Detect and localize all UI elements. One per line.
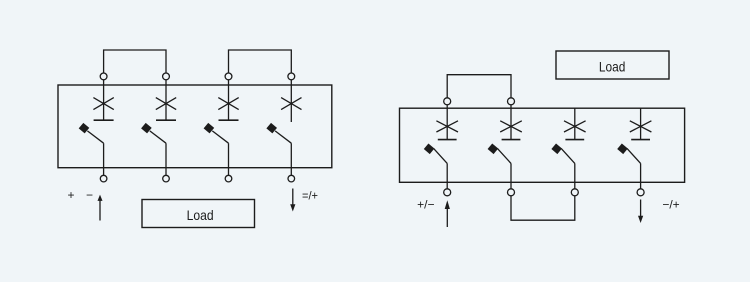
valve cross (asterisk) of switch S4 (left diagram) <box>281 98 301 110</box>
bottom terminal of switch S3 (right diagram) <box>571 189 578 196</box>
valve cross (asterisk) of switch S4 (right diagram) <box>630 121 652 132</box>
svg-text:Load: Load <box>599 58 626 74</box>
fixed contact bar of switch S3 (right diagram) <box>565 139 584 141</box>
module box (right diagram) <box>400 108 685 182</box>
current arrow up at terminal 1 (left diagram) <box>98 195 103 221</box>
svg-text:Load: Load <box>187 207 214 223</box>
Load box (left diagram) <box>142 200 255 228</box>
blade tip block of switch S1 (right diagram) <box>424 144 435 155</box>
fixed contact bar of switch S1 (left diagram) <box>94 119 114 121</box>
top terminal T1 (left diagram) <box>100 73 107 80</box>
blade tip block of switch S2 (left diagram) <box>141 123 152 134</box>
blade tip block of switch S3 (right diagram) <box>551 144 562 155</box>
wire: bottom lead of switch S4 (left diagram) <box>290 143 292 175</box>
valve cross (asterisk) of switch S3 (right diagram) <box>564 121 586 132</box>
bottom terminal of switch S2 (left diagram) <box>163 175 170 182</box>
wire: bottom lead of switch S2 (left diagram) <box>165 143 167 175</box>
bottom terminal of switch S3 (left diagram) <box>225 175 232 182</box>
top terminal T4 (left diagram) <box>288 73 295 80</box>
current arrow down at terminal 4 (right diagram) <box>638 200 643 224</box>
wire: jumper loop joining terminals 1-2 (left diagram) <box>104 50 166 73</box>
wire: jumper loop joining terminals 1-2 (right diagram) <box>447 75 511 98</box>
switch blade of switch S1 (left diagram) <box>87 131 103 143</box>
blade tip block of switch S4 (left diagram) <box>266 123 277 134</box>
blade tip block of switch S4 (right diagram) <box>617 144 628 155</box>
valve cross (asterisk) of switch S1 (right diagram) <box>436 121 458 132</box>
blade tip block of switch S2 (right diagram) <box>488 144 499 155</box>
current arrow up at terminal 1 (right diagram) <box>445 200 450 227</box>
wire: stem from box top edge (right diagram col 4) <box>640 108 642 139</box>
wire: stem from terminal T1 into box (right diagram) <box>446 105 448 140</box>
fixed contact bar of switch S3 (left diagram) <box>219 119 239 121</box>
switch blade of switch S3 (left diagram) <box>212 131 228 143</box>
svg-text:−/+: −/+ <box>662 198 679 212</box>
switch blade of switch S3 (right diagram) <box>561 149 575 164</box>
wire: bottom lead of switch S3 (right diagram) <box>574 163 576 188</box>
switch blade of switch S4 (left diagram) <box>275 131 291 143</box>
bottom terminal of switch S1 (right diagram) <box>444 189 451 196</box>
bottom terminal of switch S1 (left diagram) <box>100 175 107 182</box>
wire: bottom lead of switch S2 (right diagram) <box>510 163 512 188</box>
svg-text:=/+: =/+ <box>302 189 318 203</box>
top terminal T2 (left diagram) <box>163 73 170 80</box>
wire: bottom lead of switch S3 (left diagram) <box>228 143 230 175</box>
switch blade of switch S2 (right diagram) <box>498 149 512 164</box>
valve cross (asterisk) of switch S3 (left diagram) <box>218 98 238 110</box>
Load box (right diagram) <box>556 51 669 79</box>
wire: stem from terminal T1 into box (left diagram) <box>103 80 105 120</box>
svg-text:+/−: +/− <box>417 198 434 212</box>
bottom terminal of switch S2 (right diagram) <box>508 189 515 196</box>
wire: stem from terminal T2 into box (left diagram) <box>165 80 167 120</box>
valve cross (asterisk) of switch S1 (left diagram) <box>93 98 113 110</box>
switch blade of switch S2 (left diagram) <box>150 131 166 143</box>
fixed contact bar of switch S1 (right diagram) <box>438 139 457 141</box>
wire: stem from box top edge (right diagram col 3) <box>574 108 576 139</box>
valve cross (asterisk) of switch S2 (left diagram) <box>156 98 176 110</box>
wire: bottom lead of switch S4 (right diagram) <box>640 163 642 188</box>
fixed contact bar of switch S2 (right diagram) <box>502 139 521 141</box>
switch blade of switch S4 (right diagram) <box>627 149 641 164</box>
fixed contact bar of switch S4 (right diagram) <box>631 139 650 141</box>
blade tip block of switch S3 (left diagram) <box>204 123 215 134</box>
top terminal T1 (right diagram) <box>444 98 451 105</box>
svg-text:−: − <box>86 188 93 202</box>
fixed contact bar of switch S2 (left diagram) <box>156 119 176 121</box>
svg-text:+: + <box>67 188 74 202</box>
module box (left diagram) <box>58 85 332 168</box>
top terminal T3 (left diagram) <box>225 73 232 80</box>
switch blade of switch S1 (right diagram) <box>434 149 448 164</box>
wire: stem from terminal T4 into box (left diagram) <box>290 80 292 122</box>
wire: bottom lead of switch S1 (right diagram) <box>446 163 448 188</box>
wire: jumper loop joining bottom terminals 2-3 (right diagram) <box>511 196 575 220</box>
current arrow down at terminal 4 (left diagram) <box>290 189 295 212</box>
wire: bottom lead of switch S1 (left diagram) <box>103 143 105 175</box>
top terminal T2 (right diagram) <box>508 98 515 105</box>
valve cross (asterisk) of switch S2 (right diagram) <box>500 121 522 132</box>
bottom terminal of switch S4 (left diagram) <box>288 175 295 182</box>
wire: stem from terminal T2 into box (right diagram) <box>510 105 512 140</box>
blade tip block of switch S1 (left diagram) <box>79 123 90 134</box>
wire: stem from terminal T3 into box (left diagram) <box>228 80 230 120</box>
wire: jumper loop joining terminals 3-4 (left diagram) <box>229 50 292 73</box>
bottom terminal of switch S4 (right diagram) <box>637 189 644 196</box>
